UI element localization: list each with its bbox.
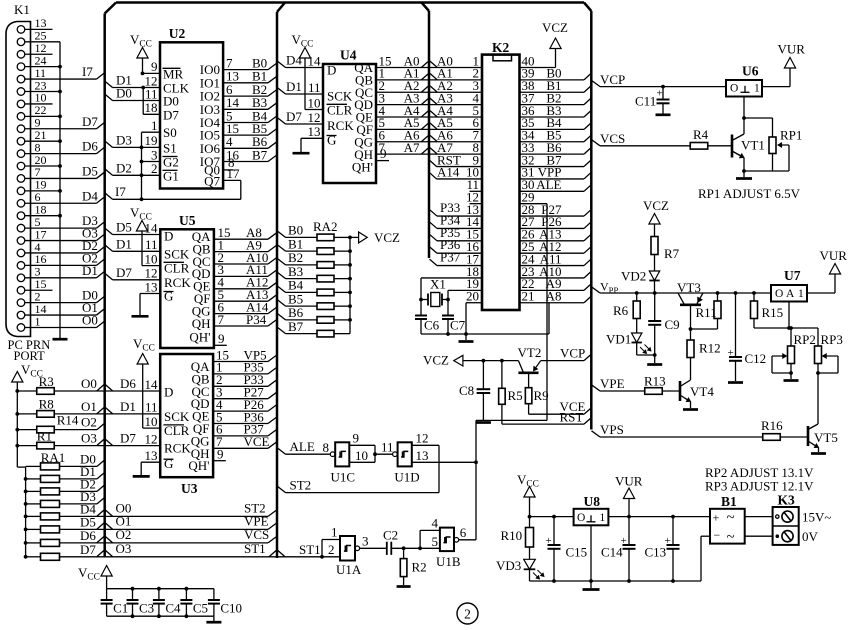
svg-text:I7: I7 bbox=[115, 184, 126, 199]
svg-text:D2: D2 bbox=[116, 160, 132, 175]
svg-text:VT5: VT5 bbox=[814, 430, 838, 445]
svg-text:10: 10 bbox=[355, 448, 368, 463]
svg-text:12: 12 bbox=[308, 110, 321, 125]
svg-text:R10: R10 bbox=[501, 528, 523, 543]
svg-text:13: 13 bbox=[416, 448, 429, 463]
svg-text:+: + bbox=[657, 88, 663, 100]
svg-text:14: 14 bbox=[145, 220, 159, 235]
svg-text:C15: C15 bbox=[566, 545, 588, 560]
svg-text:U1D: U1D bbox=[394, 470, 419, 485]
svg-text:VCS: VCS bbox=[600, 131, 625, 146]
svg-text:RP3 ADJUST 12.1V: RP3 ADJUST 12.1V bbox=[705, 479, 814, 494]
svg-text:B1: B1 bbox=[288, 236, 303, 251]
svg-text:O3: O3 bbox=[81, 431, 97, 446]
svg-text:D0: D0 bbox=[116, 86, 132, 101]
svg-text:U1A: U1A bbox=[336, 562, 362, 577]
svg-text:VCS: VCS bbox=[244, 527, 269, 542]
svg-text:SCK: SCK bbox=[164, 409, 190, 424]
svg-text:D7: D7 bbox=[120, 431, 136, 446]
svg-text:8: 8 bbox=[323, 440, 330, 455]
svg-text:K3: K3 bbox=[778, 493, 796, 508]
svg-text:1: 1 bbox=[331, 525, 338, 540]
svg-text:VCZ: VCZ bbox=[643, 198, 669, 213]
svg-text:SCK: SCK bbox=[164, 246, 190, 261]
svg-text:O3: O3 bbox=[116, 541, 132, 556]
svg-text:11: 11 bbox=[308, 80, 321, 95]
svg-text:VCP: VCP bbox=[560, 346, 585, 361]
svg-text:S1: S1 bbox=[163, 140, 177, 155]
svg-text:O: O bbox=[730, 83, 738, 95]
svg-text:ST2: ST2 bbox=[290, 478, 312, 493]
svg-text:1: 1 bbox=[754, 83, 760, 95]
svg-text:ALE: ALE bbox=[290, 439, 315, 454]
svg-text:3: 3 bbox=[151, 147, 158, 162]
svg-text:D4: D4 bbox=[82, 188, 98, 203]
svg-text:R6: R6 bbox=[613, 303, 629, 318]
svg-text:D6: D6 bbox=[82, 139, 98, 154]
svg-text:R4: R4 bbox=[693, 127, 709, 142]
svg-text:VUR: VUR bbox=[820, 248, 848, 263]
svg-text:VT1: VT1 bbox=[741, 138, 765, 153]
svg-text:2: 2 bbox=[151, 161, 158, 176]
svg-text:D1: D1 bbox=[120, 399, 136, 414]
svg-text:VPS: VPS bbox=[600, 422, 624, 437]
svg-text:QH': QH' bbox=[189, 330, 210, 345]
svg-text:B5: B5 bbox=[288, 291, 303, 306]
svg-text:VCE: VCE bbox=[244, 434, 270, 449]
svg-text:CLR: CLR bbox=[164, 261, 190, 276]
svg-text:B0: B0 bbox=[288, 223, 303, 238]
svg-text:D: D bbox=[164, 229, 173, 244]
svg-text:C10: C10 bbox=[220, 601, 242, 616]
svg-text:VT3: VT3 bbox=[677, 280, 701, 295]
svg-text:G: G bbox=[327, 133, 336, 148]
svg-text:R14: R14 bbox=[57, 412, 79, 427]
svg-text:VPE: VPE bbox=[600, 376, 625, 391]
svg-text:0V: 0V bbox=[802, 529, 819, 544]
svg-text:C7: C7 bbox=[450, 318, 466, 333]
svg-text:D1: D1 bbox=[286, 79, 302, 94]
svg-text:C1: C1 bbox=[113, 601, 128, 616]
svg-text:D7: D7 bbox=[82, 114, 98, 129]
svg-text:PORT: PORT bbox=[14, 349, 46, 363]
svg-text:B7: B7 bbox=[252, 147, 268, 162]
svg-text:ST1: ST1 bbox=[299, 542, 321, 557]
svg-text:ST1: ST1 bbox=[244, 541, 266, 556]
svg-text:O: O bbox=[775, 288, 783, 300]
svg-text:R13: R13 bbox=[644, 374, 666, 389]
svg-text:9: 9 bbox=[151, 59, 158, 74]
svg-text:10: 10 bbox=[145, 251, 158, 266]
svg-text:13: 13 bbox=[308, 124, 321, 139]
svg-text:R5: R5 bbox=[508, 388, 523, 403]
svg-text:C12: C12 bbox=[745, 351, 767, 366]
svg-text:R1: R1 bbox=[37, 428, 52, 443]
svg-text:R15: R15 bbox=[762, 305, 784, 320]
svg-text:D5: D5 bbox=[116, 220, 132, 235]
svg-text:C13: C13 bbox=[645, 545, 667, 560]
svg-text:B4: B4 bbox=[288, 278, 304, 293]
svg-text:2: 2 bbox=[328, 542, 335, 557]
svg-text:B1: B1 bbox=[721, 494, 737, 509]
svg-text:1: 1 bbox=[151, 118, 158, 133]
svg-text:14: 14 bbox=[308, 53, 322, 68]
svg-text:P34: P34 bbox=[246, 312, 267, 327]
svg-text:G: G bbox=[164, 289, 173, 304]
svg-text:CLR: CLR bbox=[327, 103, 353, 118]
svg-text:12: 12 bbox=[145, 431, 158, 446]
svg-text:RA2: RA2 bbox=[313, 219, 338, 234]
svg-text:VD2: VD2 bbox=[621, 269, 646, 284]
svg-text:VUR: VUR bbox=[615, 474, 643, 489]
svg-text:O2: O2 bbox=[116, 527, 132, 542]
svg-text:RP1: RP1 bbox=[780, 128, 802, 143]
svg-text:+: + bbox=[713, 511, 720, 525]
svg-text:P37: P37 bbox=[440, 250, 461, 265]
svg-text:VCZ: VCZ bbox=[374, 230, 400, 245]
svg-text:13: 13 bbox=[145, 279, 158, 294]
svg-text:X1: X1 bbox=[430, 277, 446, 292]
svg-text:D7: D7 bbox=[286, 109, 302, 124]
svg-text:9: 9 bbox=[353, 430, 360, 445]
svg-text:RP3: RP3 bbox=[821, 332, 843, 347]
svg-text:D0: D0 bbox=[163, 94, 179, 109]
svg-text:VT2: VT2 bbox=[518, 345, 542, 360]
svg-text:U6: U6 bbox=[742, 64, 759, 79]
svg-text:D4: D4 bbox=[286, 53, 302, 68]
svg-text:11: 11 bbox=[145, 86, 158, 101]
svg-text:5: 5 bbox=[432, 534, 439, 549]
svg-text:U1B: U1B bbox=[436, 554, 461, 569]
svg-text:19: 19 bbox=[145, 133, 158, 148]
svg-text:B2: B2 bbox=[288, 250, 303, 265]
svg-text:3: 3 bbox=[362, 533, 369, 548]
svg-text:D: D bbox=[327, 63, 336, 78]
svg-text:R7: R7 bbox=[664, 246, 680, 261]
svg-text:D1: D1 bbox=[82, 263, 98, 278]
svg-text:C11: C11 bbox=[635, 94, 656, 109]
svg-text:D1: D1 bbox=[116, 236, 132, 251]
svg-text:6: 6 bbox=[460, 525, 467, 540]
svg-text:S0: S0 bbox=[163, 125, 177, 140]
svg-text:G: G bbox=[164, 456, 173, 471]
svg-text:D7: D7 bbox=[116, 265, 132, 280]
svg-text:O: O bbox=[577, 512, 585, 524]
svg-text:VCP: VCP bbox=[600, 72, 625, 87]
svg-text:VT4: VT4 bbox=[690, 384, 714, 399]
svg-text:O1: O1 bbox=[81, 399, 97, 414]
svg-text:QH': QH' bbox=[352, 160, 373, 175]
svg-text:10: 10 bbox=[308, 95, 321, 110]
svg-text:R12: R12 bbox=[699, 341, 721, 356]
svg-text:D3: D3 bbox=[116, 132, 132, 147]
svg-text:RP2: RP2 bbox=[794, 332, 816, 347]
svg-text:9: 9 bbox=[218, 331, 225, 346]
svg-text:CLR: CLR bbox=[164, 423, 190, 438]
svg-text:A: A bbox=[786, 288, 795, 300]
svg-text:U3: U3 bbox=[181, 481, 198, 496]
svg-text:VCE: VCE bbox=[560, 399, 586, 414]
svg-text:D7: D7 bbox=[80, 542, 96, 557]
svg-text:K2: K2 bbox=[492, 40, 510, 55]
svg-text:R9: R9 bbox=[534, 388, 549, 403]
svg-text:4: 4 bbox=[432, 515, 439, 530]
svg-text:C14: C14 bbox=[601, 545, 623, 560]
svg-text:16: 16 bbox=[226, 147, 240, 162]
svg-text:QH': QH' bbox=[188, 458, 209, 473]
svg-text:K1: K1 bbox=[14, 2, 30, 17]
svg-text:SCK: SCK bbox=[327, 88, 353, 103]
svg-text:VD1: VD1 bbox=[606, 332, 631, 347]
svg-text:~: ~ bbox=[727, 510, 735, 526]
svg-text:C8: C8 bbox=[459, 383, 474, 398]
svg-text:ALE: ALE bbox=[536, 177, 561, 192]
svg-text:D5: D5 bbox=[82, 163, 98, 178]
svg-text:C4: C4 bbox=[165, 601, 181, 616]
svg-text:1: 1 bbox=[35, 314, 41, 328]
svg-text:U7: U7 bbox=[784, 268, 801, 283]
svg-text:O2: O2 bbox=[81, 415, 97, 430]
svg-text:C2: C2 bbox=[383, 528, 398, 543]
svg-text:U8: U8 bbox=[584, 494, 601, 509]
svg-text:~: ~ bbox=[727, 530, 735, 546]
svg-text:C9: C9 bbox=[665, 317, 680, 332]
svg-text:−: − bbox=[714, 528, 721, 542]
svg-text:14: 14 bbox=[145, 377, 159, 392]
svg-text:Q7: Q7 bbox=[204, 173, 220, 188]
svg-text:11: 11 bbox=[145, 400, 158, 415]
svg-text:A14: A14 bbox=[437, 165, 460, 180]
svg-text:RCK: RCK bbox=[327, 118, 354, 133]
svg-text:I7: I7 bbox=[82, 64, 93, 79]
svg-text:RP1 ADJUST 6.5V: RP1 ADJUST 6.5V bbox=[698, 186, 801, 201]
svg-text:A7: A7 bbox=[404, 140, 420, 155]
svg-text:D6: D6 bbox=[80, 528, 96, 543]
svg-text:VUR: VUR bbox=[778, 42, 806, 57]
svg-text:VD3: VD3 bbox=[496, 558, 521, 573]
svg-text:VCZ: VCZ bbox=[423, 353, 449, 368]
svg-text:R11: R11 bbox=[696, 305, 717, 320]
svg-text:D7: D7 bbox=[163, 107, 179, 122]
svg-text:15V~: 15V~ bbox=[802, 510, 831, 525]
svg-text:C5: C5 bbox=[193, 601, 208, 616]
svg-text:R16: R16 bbox=[761, 418, 783, 433]
svg-text:B3: B3 bbox=[288, 264, 303, 279]
svg-text:O0: O0 bbox=[82, 312, 98, 327]
svg-text:9: 9 bbox=[380, 146, 387, 161]
svg-text:O0: O0 bbox=[81, 376, 97, 391]
svg-text:U2: U2 bbox=[169, 26, 186, 41]
svg-text:7: 7 bbox=[218, 312, 225, 327]
svg-text:D6: D6 bbox=[120, 376, 136, 391]
svg-text:B7: B7 bbox=[288, 319, 304, 334]
svg-text:9: 9 bbox=[217, 446, 224, 461]
svg-text:B6: B6 bbox=[288, 305, 304, 320]
svg-text:1: 1 bbox=[798, 288, 804, 300]
svg-text:VCZ: VCZ bbox=[542, 20, 568, 35]
svg-text:R8: R8 bbox=[39, 397, 54, 412]
svg-text:C3: C3 bbox=[139, 601, 154, 616]
svg-text:11: 11 bbox=[145, 237, 158, 252]
svg-text:U5: U5 bbox=[179, 213, 196, 228]
svg-text:U1C: U1C bbox=[331, 470, 356, 485]
svg-text:D: D bbox=[164, 385, 173, 400]
svg-text:R2: R2 bbox=[412, 560, 427, 575]
svg-text:RCK: RCK bbox=[164, 441, 191, 456]
svg-text:11: 11 bbox=[381, 439, 394, 454]
svg-text:13: 13 bbox=[145, 448, 158, 463]
svg-text:R3: R3 bbox=[39, 374, 54, 389]
svg-text:1: 1 bbox=[600, 512, 606, 524]
svg-text:12: 12 bbox=[416, 430, 429, 445]
svg-text:A8: A8 bbox=[546, 289, 562, 304]
svg-text:10: 10 bbox=[145, 414, 158, 429]
svg-text:2: 2 bbox=[464, 606, 471, 621]
svg-text:18: 18 bbox=[145, 100, 158, 115]
svg-text:C6: C6 bbox=[424, 318, 440, 333]
